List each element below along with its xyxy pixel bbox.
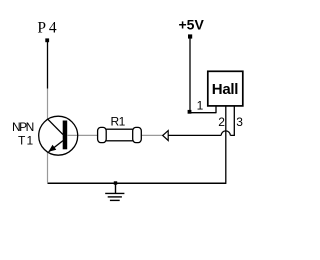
svg-text:1: 1 xyxy=(197,98,204,112)
svg-text:Hall: Hall xyxy=(212,81,238,98)
svg-text:R1: R1 xyxy=(111,114,126,128)
svg-text:NPN: NPN xyxy=(12,120,34,134)
svg-text:T1: T1 xyxy=(18,134,34,148)
svg-text:3: 3 xyxy=(236,115,243,129)
svg-text:2: 2 xyxy=(218,115,225,129)
svg-text:P4: P4 xyxy=(37,20,59,37)
svg-text:+5V: +5V xyxy=(179,16,205,32)
